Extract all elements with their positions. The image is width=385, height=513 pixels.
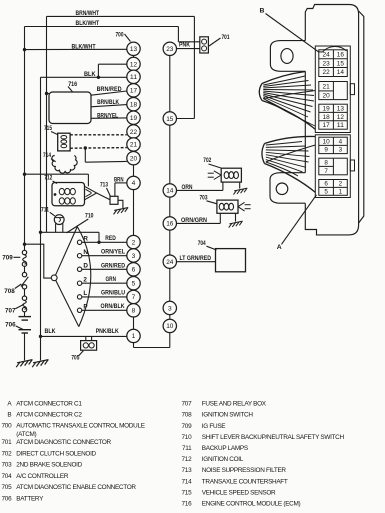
svg-text:20: 20 (130, 156, 138, 163)
svg-text:7: 7 (132, 294, 136, 301)
svg-text:RED: RED (105, 235, 116, 242)
svg-text:24: 24 (323, 51, 331, 58)
svg-text:BRN/RED: BRN/RED (97, 86, 122, 93)
svg-text:17: 17 (323, 122, 331, 129)
svg-text:BACKUP LAMPS: BACKUP LAMPS (202, 445, 248, 452)
svg-text:13: 13 (337, 105, 345, 112)
svg-text:2: 2 (339, 181, 343, 188)
svg-text:2: 2 (83, 276, 87, 283)
svg-text:ATCM DIAGNOSTIC CONNECTOR: ATCM DIAGNOSTIC CONNECTOR (16, 439, 111, 446)
svg-text:709: 709 (2, 255, 13, 262)
svg-text:PNK: PNK (179, 42, 190, 49)
svg-text:704: 704 (1, 473, 12, 480)
svg-text:IGNITION COIL: IGNITION COIL (202, 456, 244, 463)
svg-text:713: 713 (100, 181, 108, 188)
svg-text:2ND BRAKE SOLENOID: 2ND BRAKE SOLENOID (16, 462, 82, 469)
svg-text:N: N (83, 249, 88, 256)
svg-text:706: 706 (5, 322, 16, 329)
svg-text:712: 712 (44, 175, 52, 182)
svg-text:706: 706 (1, 496, 12, 503)
svg-text:10: 10 (166, 323, 174, 330)
svg-text:LT GRN/RED: LT GRN/RED (180, 255, 212, 262)
svg-text:16: 16 (337, 51, 345, 58)
svg-text:710: 710 (85, 213, 94, 220)
svg-text:A: A (277, 244, 282, 251)
svg-text:3: 3 (132, 253, 136, 260)
svg-text:716: 716 (68, 81, 77, 88)
svg-text:L: L (83, 290, 87, 297)
svg-text:4: 4 (132, 180, 136, 187)
svg-text:14: 14 (337, 69, 345, 76)
svg-text:ATCM CONNECTOR C1: ATCM CONNECTOR C1 (16, 401, 82, 408)
svg-text:D: D (83, 263, 88, 270)
svg-text:22: 22 (323, 69, 331, 76)
svg-text:11: 11 (130, 74, 138, 81)
svg-text:FUSE AND RELAY BOX: FUSE AND RELAY BOX (202, 401, 267, 408)
svg-text:22: 22 (130, 129, 138, 136)
svg-text:BRN/YEL: BRN/YEL (97, 113, 118, 120)
svg-text:P: P (83, 304, 87, 311)
svg-text:700: 700 (1, 423, 12, 430)
svg-text:1: 1 (339, 189, 343, 196)
svg-text:16: 16 (166, 221, 174, 228)
svg-text:6: 6 (324, 181, 328, 188)
svg-text:705: 705 (1, 484, 12, 491)
svg-text:A/C CONTROLLER: A/C CONTROLLER (16, 473, 69, 480)
svg-text:BLK: BLK (45, 328, 56, 335)
svg-text:SHIFT LEVER BACKUP/NEUTRAL SAF: SHIFT LEVER BACKUP/NEUTRAL SAFETY SWITCH (202, 434, 345, 441)
svg-text:GRN/BLU: GRN/BLU (101, 290, 125, 297)
svg-text:710: 710 (181, 434, 192, 441)
svg-text:715: 715 (44, 125, 52, 132)
svg-text:18: 18 (323, 114, 331, 121)
svg-text:23: 23 (323, 60, 331, 67)
svg-text:ATCM DIAGNOSTIC ENABLE CONNECT: ATCM DIAGNOSTIC ENABLE CONNECTOR (16, 484, 136, 491)
svg-text:1: 1 (132, 333, 136, 340)
svg-text:NOISE SUPPRESSION FILTER: NOISE SUPPRESSION FILTER (202, 467, 287, 474)
svg-text:2: 2 (132, 239, 136, 246)
svg-text:IG FUSE: IG FUSE (202, 423, 226, 430)
svg-text:BRN/BLK: BRN/BLK (97, 99, 119, 106)
svg-text:8: 8 (324, 159, 328, 166)
svg-text:PNK/BLK: PNK/BLK (96, 328, 119, 335)
svg-text:12: 12 (130, 61, 138, 68)
svg-text:BLK: BLK (84, 71, 96, 78)
svg-text:4: 4 (339, 139, 343, 146)
svg-text:15: 15 (337, 60, 345, 67)
svg-text:AUTOMATIC TRANSAXLE CONTROL MO: AUTOMATIC TRANSAXLE CONTROL MODULE (16, 423, 144, 430)
svg-text:ORN/GRN: ORN/GRN (181, 217, 207, 224)
svg-text:9: 9 (324, 147, 328, 154)
svg-text:DIRECT CLUTCH SOLENOID: DIRECT CLUTCH SOLENOID (16, 450, 96, 457)
svg-text:BRN/WHT: BRN/WHT (76, 10, 100, 17)
svg-text:ORN/YEL: ORN/YEL (101, 249, 125, 256)
svg-text:3: 3 (339, 147, 343, 154)
svg-text:BLK/WHT: BLK/WHT (72, 43, 96, 50)
svg-text:11: 11 (337, 122, 345, 129)
svg-text:714: 714 (43, 152, 51, 159)
svg-text:703: 703 (200, 195, 208, 202)
svg-text:6: 6 (132, 267, 136, 274)
svg-text:704: 704 (198, 240, 206, 247)
svg-text:714: 714 (181, 478, 192, 485)
svg-text:5: 5 (132, 281, 136, 288)
svg-text:708: 708 (181, 412, 192, 419)
svg-text:7: 7 (324, 168, 328, 175)
svg-text:BLK/WHT: BLK/WHT (76, 20, 100, 27)
svg-text:15: 15 (166, 116, 174, 123)
svg-text:TRANSAXLE COUNTERSHAFT: TRANSAXLE COUNTERSHAFT (202, 478, 288, 485)
svg-text:20: 20 (323, 92, 331, 99)
svg-text:21: 21 (130, 142, 138, 149)
svg-text:ENGINE CONTROL MODULE (ECM): ENGINE CONTROL MODULE (ECM) (202, 501, 301, 508)
svg-text:24: 24 (166, 259, 174, 266)
svg-text:8: 8 (132, 308, 136, 315)
svg-text:10: 10 (323, 139, 331, 146)
svg-text:700: 700 (116, 32, 124, 39)
svg-text:708: 708 (4, 288, 15, 295)
svg-text:707: 707 (5, 308, 16, 315)
svg-text:13: 13 (130, 46, 138, 53)
svg-text:709: 709 (181, 423, 192, 430)
svg-text:18: 18 (130, 102, 138, 109)
svg-text:IGNITION SWITCH: IGNITION SWITCH (202, 412, 254, 419)
svg-text:R: R (83, 236, 88, 243)
svg-text:ORN: ORN (182, 184, 193, 191)
svg-text:21: 21 (323, 83, 331, 90)
svg-text:707: 707 (181, 401, 192, 408)
svg-text:701: 701 (222, 34, 230, 41)
svg-text:702: 702 (203, 157, 211, 164)
svg-text:BRN: BRN (114, 176, 124, 183)
svg-text:705: 705 (71, 355, 79, 362)
svg-text:703: 703 (1, 462, 12, 469)
svg-text:5: 5 (324, 189, 328, 196)
svg-text:19: 19 (323, 105, 331, 112)
svg-text:716: 716 (181, 501, 192, 508)
svg-text:711: 711 (182, 445, 192, 452)
svg-text:(ATCM): (ATCM) (16, 431, 36, 438)
svg-text:12: 12 (337, 114, 345, 121)
svg-text:711: 711 (41, 207, 49, 214)
svg-text:713: 713 (181, 467, 192, 474)
svg-text:ORN/BLK: ORN/BLK (101, 303, 125, 310)
svg-text:VEHICLE SPEED SENSOR: VEHICLE SPEED SENSOR (202, 490, 276, 497)
svg-text:B: B (260, 8, 265, 15)
svg-text:BATTERY: BATTERY (16, 496, 44, 503)
svg-text:19: 19 (130, 115, 138, 122)
svg-text:ATCM CONNECTOR C2: ATCM CONNECTOR C2 (16, 412, 82, 419)
svg-text:23: 23 (166, 46, 174, 53)
svg-text:701: 701 (1, 439, 12, 446)
svg-text:14: 14 (166, 188, 174, 195)
svg-text:B: B (7, 412, 11, 419)
svg-text:3: 3 (168, 305, 172, 312)
svg-text:GRN: GRN (106, 276, 117, 283)
svg-text:17: 17 (130, 88, 138, 95)
svg-text:715: 715 (181, 490, 192, 497)
svg-text:712: 712 (181, 456, 192, 463)
svg-text:GRN/RED: GRN/RED (101, 262, 125, 269)
svg-text:702: 702 (1, 450, 12, 457)
